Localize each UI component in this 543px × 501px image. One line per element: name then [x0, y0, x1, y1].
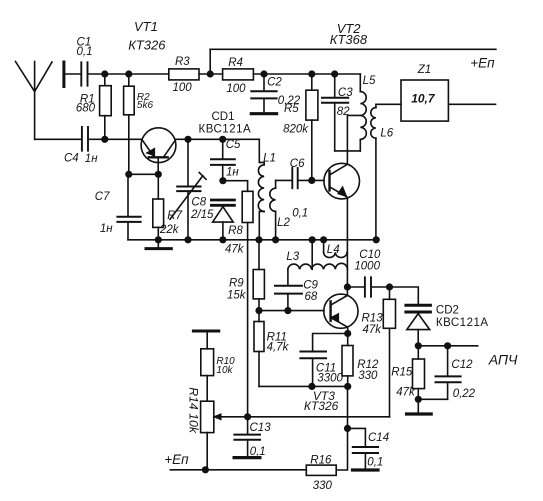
wire: C10 node row	[347, 286, 364, 288]
svg-text:330: 330	[313, 480, 333, 492]
capacitor C5	[211, 139, 235, 180]
svg-text:R9: R9	[229, 278, 244, 290]
capacitor C3	[322, 74, 348, 151]
svg-text:10k: 10k	[216, 365, 233, 376]
wire: R4 to C3/L5 node	[253, 73, 360, 75]
capacitor C12	[436, 346, 461, 400]
svg-text:47k: 47k	[225, 244, 245, 256]
wire: R12 node down to R16 corner	[336, 386, 347, 470]
wire: R7 bottom lead	[157, 227, 159, 239]
wire: R12 top lead	[347, 334, 349, 346]
capacitor C11	[300, 352, 326, 387]
svg-text:0,22: 0,22	[453, 388, 476, 400]
resistor R10	[201, 349, 214, 376]
capacitor C4	[82, 127, 88, 151]
trimmer capacitor C8	[170, 139, 206, 240]
wire: C3 bottom to L5 bottom	[335, 150, 361, 152]
svg-text:1н: 1н	[85, 153, 98, 165]
capacitor C10	[365, 277, 371, 296]
wire: +Ep top rail	[210, 48, 496, 50]
inductor L4	[324, 240, 347, 258]
transistor VT1 (KT326)	[141, 128, 176, 175]
svg-text:КТ326: КТ326	[128, 38, 166, 53]
capacitor C13	[234, 417, 260, 456]
svg-text:100: 100	[226, 83, 246, 95]
svg-text:2/15: 2/15	[190, 209, 214, 221]
wire: L3 left end to C9	[287, 269, 289, 285]
capacitor C1	[81, 62, 87, 85]
wire: R5 bottom lead to VT2 base node	[311, 120, 313, 180]
svg-text:КТ326: КТ326	[304, 399, 339, 413]
transistor VT2 (KT368)	[324, 163, 360, 199]
resistor R3	[169, 69, 199, 80]
svg-text:0,1: 0,1	[292, 208, 308, 220]
resistor R2	[124, 86, 135, 115]
svg-text:C9: C9	[303, 280, 318, 292]
svg-text:L4: L4	[327, 244, 340, 256]
wire: R13 bottom lead	[389, 328, 391, 417]
svg-text:VT1: VT1	[134, 19, 158, 34]
wire: R15 top lead	[417, 346, 419, 359]
wire: emitter row to C11	[313, 334, 348, 351]
resistor R5	[306, 90, 318, 120]
svg-text:1н: 1н	[226, 167, 239, 179]
wire: CD1/C5 node to R8	[223, 181, 248, 192]
filter Z1	[401, 80, 448, 121]
wire: R12 bottom lead	[347, 376, 349, 387]
wire: VT1 collector to C8/C5/L1 node	[175, 138, 259, 140]
capacitor C9	[275, 286, 302, 311]
svg-text:C12: C12	[451, 359, 473, 371]
resistor R13	[383, 299, 395, 328]
capacitor C6	[292, 168, 297, 188]
svg-text:L1: L1	[263, 153, 276, 165]
wire: R11/C11/R12 bottom row	[259, 385, 348, 387]
svg-text:R14 10k: R14 10k	[187, 387, 201, 434]
resistor R4	[223, 69, 254, 80]
svg-text:КВС121А: КВС121А	[436, 317, 489, 329]
wire: VT3 collector to C10 node	[346, 287, 348, 295]
svg-text:АПЧ: АПЧ	[488, 352, 518, 368]
capacitor C14	[348, 428, 379, 468]
svg-text:R15: R15	[391, 366, 413, 378]
wire: L3 tap to ground rail	[311, 240, 313, 269]
wire: C1 to R3 (node with R1,R2)	[88, 73, 168, 75]
wire: R8 bottom to tuning-voltage row (crosses ground rail)	[247, 223, 249, 417]
inductor L1	[258, 162, 264, 239]
svg-text:R13: R13	[362, 313, 384, 325]
resistor R11	[254, 322, 264, 352]
wire: input bar to C1	[65, 73, 80, 75]
varicap CD2	[406, 305, 431, 346]
varicap CD1	[211, 200, 234, 240]
inductor L6	[371, 104, 401, 240]
svg-text:0,1: 0,1	[367, 457, 383, 469]
svg-text:820k: 820k	[283, 124, 309, 136]
svg-text:4,7k: 4,7k	[267, 341, 290, 353]
resistor R12	[342, 346, 353, 376]
svg-text:C2: C2	[267, 76, 282, 88]
resistor R9	[253, 270, 264, 299]
svg-text:C6: C6	[290, 158, 305, 170]
svg-text:C5: C5	[226, 139, 241, 151]
svg-text:680: 680	[76, 102, 96, 114]
svg-text:C7: C7	[95, 191, 110, 203]
wire: riser to +Ep rail	[209, 49, 211, 74]
svg-text:+Еп: +Еп	[470, 55, 495, 70]
svg-text:+Еп: +Еп	[164, 452, 189, 467]
svg-text:C3: C3	[338, 87, 353, 99]
svg-text:R5: R5	[284, 103, 299, 115]
ground bar below C13	[234, 456, 260, 459]
svg-text:0,1: 0,1	[250, 446, 266, 458]
svg-text:R16: R16	[310, 455, 332, 467]
svg-text:100: 100	[173, 82, 193, 94]
wire: R14 bottom lead	[206, 433, 208, 470]
wire: R2 top lead	[128, 74, 130, 86]
svg-text:C4: C4	[64, 152, 79, 164]
svg-text:L6: L6	[380, 127, 393, 139]
wire: R9 bottom lead	[258, 299, 260, 311]
svg-text:0,1: 0,1	[77, 46, 93, 58]
wire: emitter node row (C4/R1 node to VT1)	[88, 138, 141, 140]
wire: VT2 emitter down through L4/L3 right ends	[346, 198, 348, 287]
capacitor C2	[251, 74, 276, 112]
wire: R10 to R14	[206, 376, 208, 402]
capacitor C7	[117, 174, 140, 240]
svg-text:R4: R4	[228, 57, 243, 69]
inductor L2	[270, 180, 276, 239]
svg-text:CD2: CD2	[436, 304, 459, 316]
wire: C10 to CD2 corner (node with R13)	[372, 287, 418, 304]
wire: R15 bottom lead	[417, 389, 419, 413]
svg-text:15k: 15k	[227, 290, 247, 302]
wire: R2 bottom lead to VT1 base row	[128, 115, 130, 175]
svg-text:3300: 3300	[317, 372, 343, 384]
wire: L1 top lead from collector node	[258, 139, 260, 162]
svg-text:L5: L5	[363, 75, 376, 87]
svg-text:L3: L3	[286, 251, 299, 263]
wire: R1 top lead	[104, 74, 106, 86]
svg-text:L2: L2	[277, 217, 290, 229]
svg-text:22k: 22k	[159, 224, 180, 236]
svg-text:КВС121А: КВС121А	[199, 124, 252, 136]
ground below R15	[407, 412, 432, 415]
svg-text:C13: C13	[250, 422, 272, 434]
wire: R9 top lead from ground rail	[258, 240, 260, 270]
svg-text:C10: C10	[359, 249, 381, 261]
wire: +Ep bottom rail to R16	[170, 469, 306, 471]
antenna W1	[16, 62, 53, 140]
wire: R5 top lead	[311, 74, 313, 90]
svg-text:C8: C8	[191, 197, 206, 209]
svg-text:47k: 47k	[396, 386, 416, 398]
svg-text:CD1: CD1	[212, 111, 235, 123]
wire: VT3 emitter node	[347, 327, 349, 333]
inductor L3	[288, 263, 348, 269]
wire: VT3 base row	[259, 310, 324, 312]
wire: R3 to R4	[199, 73, 223, 75]
svg-text:47k: 47k	[363, 324, 383, 336]
svg-text:1000: 1000	[354, 261, 380, 273]
svg-text:82: 82	[337, 106, 350, 118]
antenna input terminal bar	[62, 62, 65, 87]
inductor L5	[360, 74, 366, 151]
wire: R1 bottom lead	[104, 116, 106, 140]
resistor R7	[153, 199, 164, 227]
resistor R16	[306, 465, 336, 475]
resistor R1	[100, 86, 112, 116]
svg-text:R8: R8	[228, 225, 243, 237]
ground bar of C2	[251, 112, 276, 115]
wire: R13 top lead	[389, 287, 391, 299]
svg-text:5k6: 5k6	[137, 100, 154, 111]
svg-text:10,7: 10,7	[411, 92, 436, 106]
transistor VT3 (KT326)	[324, 294, 358, 328]
wire: C6 to VT2 base node	[299, 179, 325, 181]
ground below R7	[146, 240, 171, 249]
wire: R11 bottom lead	[258, 352, 260, 387]
wire: antenna to C4	[35, 138, 81, 140]
svg-text:C14: C14	[368, 432, 389, 444]
wire: R14 wiper row to R13 bottom	[220, 416, 390, 418]
svg-text:КТ368: КТ368	[330, 32, 368, 47]
resistor R15	[413, 359, 425, 389]
ground bar below C14	[353, 468, 379, 471]
terminal bar above R10	[193, 330, 218, 333]
wire: CD2 anode row to AFC output	[418, 345, 477, 347]
wire: R10 top lead	[206, 332, 208, 348]
wire: R7 top lead	[157, 174, 159, 199]
wire: Z1 output	[448, 103, 495, 105]
wire: C12 bottom to R15 bottom	[418, 398, 447, 400]
svg-text:R7: R7	[167, 210, 182, 222]
svg-text:R3: R3	[175, 56, 190, 68]
potentiometer R14	[201, 401, 221, 432]
svg-text:1н: 1н	[100, 223, 113, 235]
ground rail (main)	[128, 239, 376, 241]
resistor R8	[242, 191, 253, 222]
svg-text:Z1: Z1	[417, 64, 431, 76]
wire: L2 top to C6	[276, 179, 292, 181]
svg-text:68: 68	[305, 291, 318, 303]
svg-text:330: 330	[358, 370, 378, 382]
wire: VT1 base row	[129, 173, 159, 175]
wire: R11 top lead	[258, 311, 260, 322]
wire: L5 tap to VT2 collector	[347, 115, 360, 163]
